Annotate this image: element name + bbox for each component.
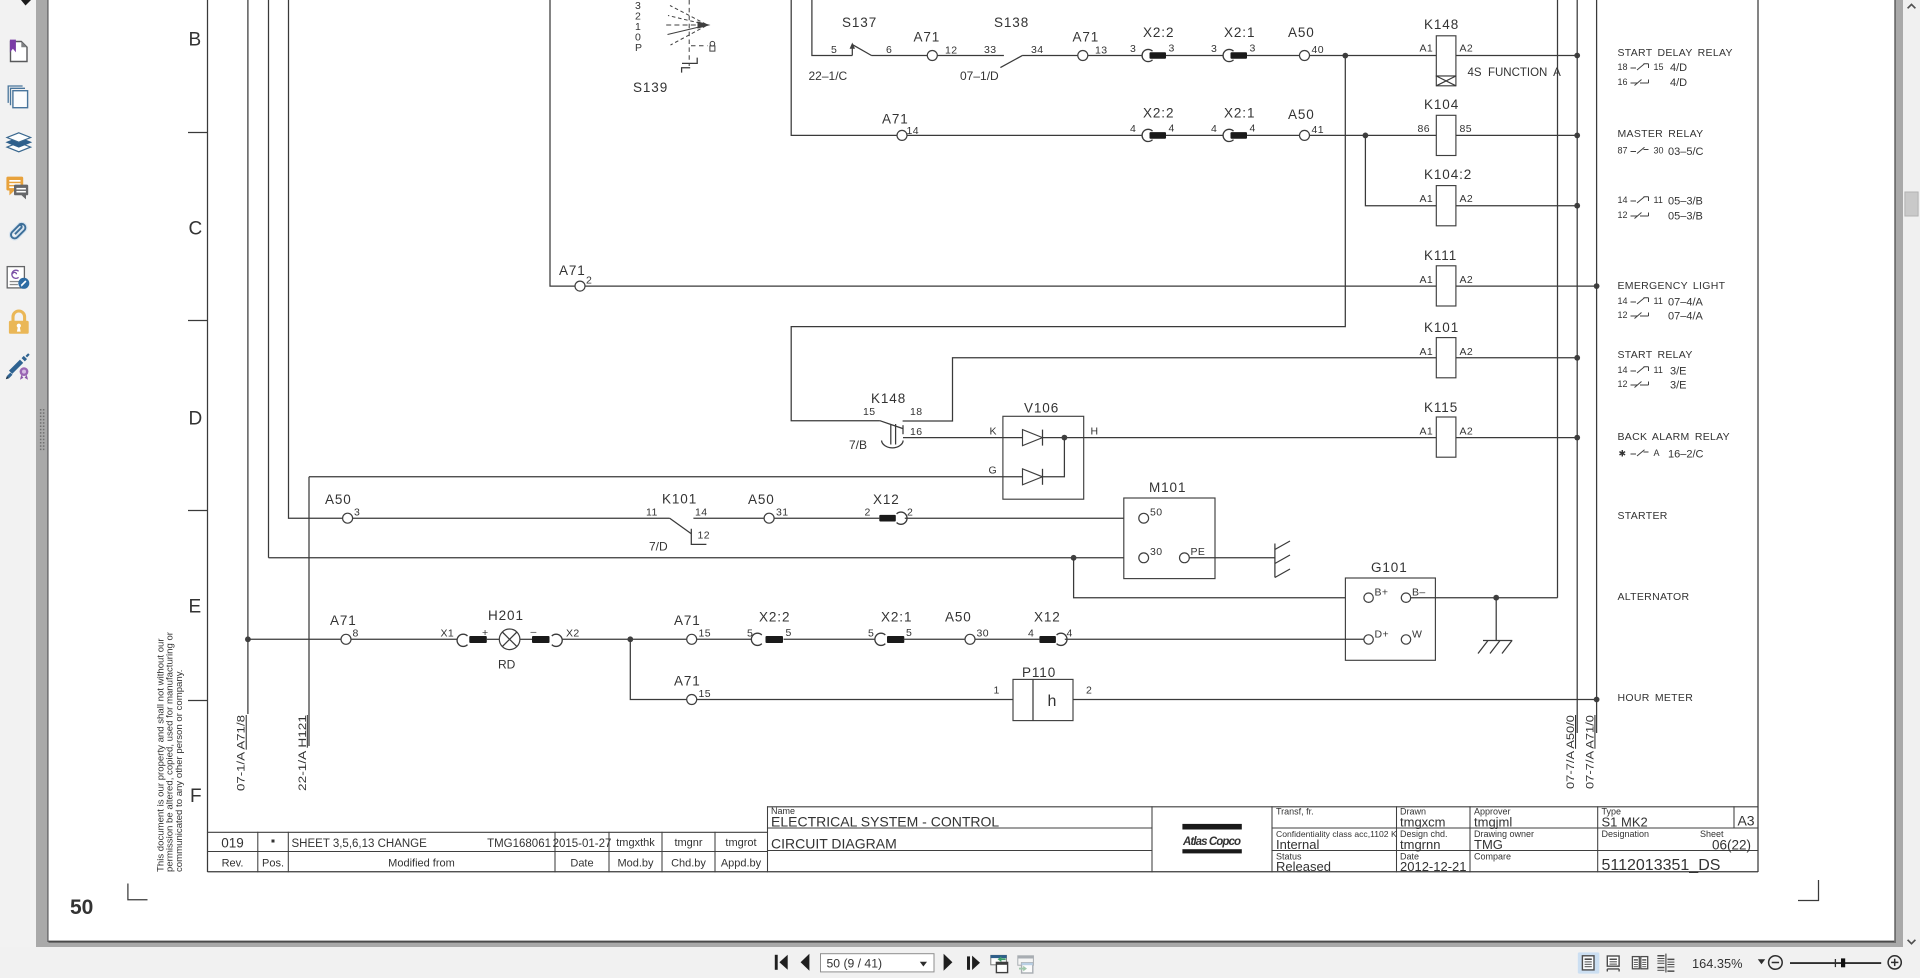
- svg-text:2: 2: [1086, 685, 1092, 697]
- wire X2:2 to X2:1 row B2: [1166, 134, 1223, 136]
- svg-text:BACK ALARM RELAY: BACK ALARM RELAY: [1618, 431, 1730, 443]
- wire K101:14 to A50:31: [693, 517, 764, 519]
- svg-text:RD: RD: [498, 658, 516, 672]
- row tick E/F: [188, 700, 208, 702]
- svg-text:07–1/D: 07–1/D: [960, 69, 999, 83]
- wire A50:40 to K148:A1: [1310, 55, 1437, 57]
- hour meter P110 box: [1013, 679, 1073, 720]
- svg-text:4/D: 4/D: [1670, 62, 1687, 74]
- svg-text:2012-12-21: 2012-12-21: [1400, 859, 1467, 874]
- wire X2:1 to A50:41: [1247, 134, 1300, 136]
- svg-text:Chd.by: Chd.by: [671, 858, 706, 870]
- svg-text:H201: H201: [488, 608, 524, 623]
- svg-text:A1: A1: [1420, 346, 1434, 358]
- svg-text:15: 15: [699, 688, 711, 700]
- svg-text:164.35%: 164.35%: [1692, 956, 1743, 971]
- svg-text:13: 13: [1095, 45, 1107, 57]
- svg-text:K101: K101: [662, 492, 697, 507]
- wire K111:A2 to bus3: [1456, 285, 1597, 287]
- wire: vertical from top at x=550 to C-row corner: [550, 0, 575, 286]
- S139 selector arrow: [698, 21, 711, 28]
- svg-text:07–4/A: 07–4/A: [1668, 311, 1704, 323]
- svg-text:16: 16: [1618, 77, 1628, 87]
- wire X2 to A71:15: [562, 638, 687, 640]
- svg-text:3: 3: [1211, 43, 1217, 55]
- svg-text:50 (9 / 41): 50 (9 / 41): [827, 957, 883, 971]
- wire: vertical at x=309 from V106-G corner down to label H121: [308, 477, 310, 746]
- row tick C/D: [188, 320, 208, 322]
- terminal circle A71:12: [927, 51, 937, 61]
- svg-text:A3: A3: [1737, 813, 1754, 829]
- svg-text:START DELAY RELAY: START DELAY RELAY: [1618, 47, 1733, 59]
- node: junction dot bus2 K101 row: [1574, 355, 1580, 361]
- svg-text:h: h: [1048, 693, 1057, 710]
- svg-text:communicated to any other pers: communicated to any other person or comp…: [174, 670, 185, 872]
- svg-text:B–: B–: [1412, 587, 1426, 599]
- wire A50:31 to X12:2: [774, 517, 879, 519]
- svg-text:12: 12: [945, 45, 957, 57]
- svg-text:4: 4: [1169, 123, 1175, 135]
- svg-text:A50: A50: [945, 610, 972, 625]
- svg-text:5: 5: [831, 44, 837, 56]
- svg-text:S139: S139: [633, 80, 668, 95]
- svg-text:2015-01-27: 2015-01-27: [553, 838, 612, 850]
- node: junction dot at (1073.6,557.8): [1071, 555, 1077, 561]
- relay coil K101: [1436, 338, 1456, 378]
- wire branch down to K104:2 coil: [1365, 135, 1436, 205]
- terminal circle M101:30: [1139, 553, 1149, 563]
- continuous layout button: [1607, 956, 1619, 966]
- wire: bus3 A71/0 from top to y=733: [1596, 0, 1598, 733]
- svg-text:5: 5: [906, 627, 912, 639]
- partial icon at top: [21, 0, 31, 6]
- wire A50:3 to K101:11: [353, 517, 670, 519]
- wire: vertical from top at x=811.9 to B1-row corner feeding S137: [812, 0, 852, 56]
- connector X2:1 socket symbol row E: [875, 633, 885, 645]
- svg-text:85: 85: [1460, 123, 1472, 135]
- svg-text:50: 50: [70, 896, 93, 919]
- svg-text:X2:1: X2:1: [881, 610, 912, 625]
- svg-text:5: 5: [786, 627, 792, 639]
- svg-text:50: 50: [1150, 507, 1162, 519]
- terminal circle A71:15 (hour row): [687, 695, 697, 705]
- digital signatures icon: [7, 267, 24, 288]
- svg-text:6: 6: [886, 44, 892, 56]
- sheet corner mark bottom-left: [128, 884, 148, 900]
- K104:2 contact cross-ref 14/11 05-3/B: [1631, 197, 1649, 203]
- K115 contact cross-ref * A 16-2/C: [1631, 450, 1649, 456]
- svg-text:SHEET 3,5,6,13 CHANGE: SHEET 3,5,6,13 CHANGE: [292, 838, 428, 850]
- S139 manual operator brackets: [682, 58, 697, 64]
- K148 contact cross-ref 16 4/D: [1631, 80, 1649, 86]
- svg-text:34: 34: [1031, 44, 1043, 56]
- svg-text:PE: PE: [1191, 546, 1206, 558]
- connector X1 socket symbol: [457, 634, 467, 646]
- Atlas Copco logo: [1182, 824, 1241, 830]
- wire ground drop from B- net: [1495, 598, 1497, 641]
- svg-text:A2: A2: [1460, 274, 1474, 286]
- wire: vertical from top at x=791.2 to B2-row corner feeding A71:14: [791, 0, 897, 135]
- zoom out button: [1769, 956, 1783, 970]
- svg-text:4: 4: [1130, 123, 1136, 135]
- starter motor M101 box: [1124, 498, 1215, 579]
- svg-text:12: 12: [1618, 379, 1628, 389]
- svg-text:41: 41: [1312, 124, 1324, 136]
- svg-text:14: 14: [1618, 195, 1628, 205]
- node: junction dot at (1496.2,597.7): [1493, 595, 1499, 601]
- svg-text:12: 12: [698, 530, 710, 542]
- svg-text:3: 3: [1169, 43, 1175, 55]
- comments icon: [6, 177, 23, 196]
- page number box: [821, 954, 935, 972]
- svg-text:S138: S138: [994, 15, 1029, 30]
- svg-text:30: 30: [1654, 146, 1664, 156]
- S139 interlock dashed link: [691, 45, 708, 47]
- svg-text:C: C: [189, 219, 203, 240]
- svg-text:11: 11: [646, 507, 658, 519]
- continuous facing layout button: [1665, 954, 1667, 973]
- wire X2:1 to A50:30: [904, 638, 966, 640]
- wire S137:6 to A71:12 to S138:33: [872, 55, 1004, 57]
- svg-text:3/E: 3/E: [1670, 366, 1687, 378]
- attachments (paperclip) icon: [9, 222, 27, 240]
- svg-text:1: 1: [994, 685, 1000, 697]
- wire: bus2 A50/0 from top to y=733: [1576, 0, 1578, 733]
- svg-text:A2: A2: [1460, 193, 1474, 205]
- svg-text:B+: B+: [1375, 587, 1389, 599]
- svg-text:A50: A50: [1288, 25, 1315, 40]
- svg-text:HOUR METER: HOUR METER: [1618, 692, 1694, 704]
- svg-text:K111: K111: [1424, 248, 1457, 263]
- K104 contact cross-ref 87/30 03-5/C: [1631, 147, 1649, 153]
- svg-text:M101: M101: [1149, 480, 1186, 495]
- wire V106-G input from x=309: [309, 476, 1023, 478]
- node: junction dot bus2 K104:2 row: [1574, 203, 1580, 209]
- svg-text:4/D: 4/D: [1670, 77, 1687, 89]
- svg-text:H: H: [1091, 426, 1099, 438]
- svg-text:22-1/A H121: 22-1/A H121: [297, 715, 309, 791]
- svg-text:START RELAY: START RELAY: [1618, 349, 1693, 361]
- svg-text:A71: A71: [882, 112, 909, 127]
- wire: vertical bus from top at x=288.5 turning right at y=518.2 (starter row feed): [289, 0, 343, 518]
- svg-text:K148: K148: [871, 391, 906, 406]
- svg-text:Released: Released: [1276, 859, 1331, 874]
- svg-text:D+: D+: [1375, 629, 1390, 641]
- wire A71:14 to X2:2 row B2: [907, 134, 1142, 136]
- svg-text:4: 4: [1211, 123, 1217, 135]
- wire: net from corner (791.2,326.6) right to 1345.3 and up to B1 supply dot: [791, 56, 1345, 421]
- K111 contact cross-ref 14/11 07-4/A: [1631, 298, 1649, 304]
- zoom in button: [1888, 956, 1901, 969]
- svg-text:TMG: TMG: [1474, 837, 1503, 852]
- svg-text:Pos.: Pos.: [262, 858, 284, 870]
- wire from x=268.5 to M101:30: [269, 557, 1139, 559]
- svg-text:G: G: [989, 465, 998, 477]
- S139 selector fan (dashed position lines): [665, 6, 707, 46]
- K148 delay (parachute) symbol: [890, 424, 892, 445]
- svg-text:K101: K101: [1424, 320, 1459, 335]
- K101 contact cross-ref 12 3/E: [1631, 382, 1649, 388]
- diode V106b: [1023, 469, 1043, 485]
- node: junction dot V106 internal: [1062, 435, 1068, 441]
- svg-text:Mod.by: Mod.by: [617, 858, 654, 870]
- terminal circle A50:31: [764, 513, 774, 523]
- relay coil K104:2: [1436, 186, 1456, 226]
- sign document icon: [11, 361, 22, 372]
- lamp H201 symbol: [499, 629, 520, 650]
- terminal circle A71:2: [575, 281, 585, 291]
- svg-text:11: 11: [1654, 195, 1663, 205]
- svg-text:3: 3: [1130, 43, 1136, 55]
- wire branch down to G101:B+: [1074, 558, 1364, 598]
- svg-text:11: 11: [1654, 296, 1663, 306]
- svg-text:X2:1: X2:1: [1224, 25, 1255, 40]
- svg-text:STARTER: STARTER: [1618, 510, 1668, 522]
- wire A50:41 to K104:86: [1310, 134, 1437, 136]
- svg-text:tmgxthk: tmgxthk: [616, 837, 655, 849]
- svg-text:5112013351_DS: 5112013351_DS: [1602, 857, 1721, 874]
- svg-text:Transf, fr.: Transf, fr.: [1276, 807, 1314, 817]
- pages icon: [8, 86, 22, 103]
- terminal circle G101:D+: [1364, 635, 1373, 644]
- S139 lock glyph: [710, 41, 715, 46]
- svg-text:4: 4: [1028, 628, 1034, 640]
- svg-text:A1: A1: [1420, 43, 1434, 55]
- svg-text:A71: A71: [914, 30, 941, 45]
- wire destination label A71/0 07-7/A (rotated): [1584, 715, 1596, 789]
- node: junction dot at (1345.3,55.6): [1342, 53, 1348, 59]
- node: junction dot E-row at (247.9,639.3): [245, 636, 251, 642]
- svg-text:X2:2: X2:2: [1143, 25, 1174, 40]
- wire drop from E row to hour meter row: [630, 639, 686, 699]
- disclaimer rotated text: [156, 631, 185, 872]
- terminal circle A71:8: [341, 634, 351, 644]
- terminal circle G101:W: [1401, 635, 1410, 644]
- contact K148 blade and terminals: [880, 421, 903, 429]
- next view button (disabled): [1018, 956, 1034, 965]
- drawing frame bottom border: [208, 871, 1759, 873]
- K148 timer function box with X: [1436, 76, 1456, 86]
- terminal circle M101:50: [1139, 513, 1149, 523]
- svg-text:A50: A50: [1288, 107, 1315, 122]
- svg-text:Modified from: Modified from: [388, 858, 455, 870]
- diode V106a: [1023, 430, 1043, 446]
- svg-text:ELECTRICAL SYSTEM - CONTROL: ELECTRICAL SYSTEM - CONTROL: [771, 814, 999, 830]
- svg-text:22–1/C: 22–1/C: [809, 69, 848, 83]
- svg-text:A: A: [1654, 448, 1660, 458]
- wire X12:4 to G101:D+: [1065, 638, 1364, 640]
- svg-text:A1: A1: [1420, 426, 1434, 438]
- wire destination label H121 22-1/A (rotated): [297, 715, 309, 791]
- wire K104:2 A2 to bus2: [1456, 205, 1577, 207]
- row tick B/C: [188, 132, 208, 134]
- svg-text:40: 40: [1312, 44, 1324, 56]
- svg-text:X2:1: X2:1: [1224, 106, 1255, 121]
- svg-text:18: 18: [1618, 62, 1628, 72]
- svg-text:A50: A50: [325, 492, 352, 507]
- title block outline: [768, 807, 1759, 872]
- wire A71:15 to X2:2 row E: [697, 638, 752, 640]
- terminal circle A50:3: [343, 513, 353, 523]
- wire V106a to output H: [1043, 437, 1093, 439]
- contact K101 NC terminal 12: [691, 529, 706, 545]
- relay coil K115: [1436, 417, 1456, 457]
- wire V106b to junction: [1043, 438, 1065, 477]
- svg-text:D: D: [189, 409, 203, 430]
- svg-text:12: 12: [1618, 310, 1628, 320]
- svg-text:A71: A71: [330, 613, 357, 628]
- svg-text:019: 019: [221, 836, 244, 851]
- terminal circle A50:30: [965, 634, 975, 644]
- svg-text:tmgjml: tmgjml: [1474, 814, 1512, 829]
- previous page button: [801, 954, 810, 971]
- svg-text:3/E: 3/E: [1670, 380, 1687, 392]
- svg-text:EMERGENCY LIGHT: EMERGENCY LIGHT: [1618, 280, 1726, 292]
- svg-text:16: 16: [910, 426, 922, 438]
- svg-text:Atlas Copco: Atlas Copco: [1182, 836, 1241, 848]
- wire X2:2 to X2:1 row B1: [1166, 55, 1223, 57]
- svg-text:06(22): 06(22): [1712, 838, 1751, 853]
- svg-text:K104: K104: [1424, 97, 1459, 112]
- svg-text:07-7/A A50/0: 07-7/A A50/0: [1565, 715, 1577, 789]
- svg-text:A50: A50: [748, 492, 775, 507]
- switch S138 blade (open): [1000, 55, 1022, 67]
- connector X2:1 socket symbol row B2: [1223, 129, 1233, 141]
- drawing frame right border: [1757, 0, 1759, 872]
- wire A71:15 to P110:1: [697, 699, 1013, 701]
- wire K148:A2 to bus2: [1456, 55, 1577, 57]
- connector X2:2 socket symbol row B2: [1142, 129, 1152, 141]
- svg-text:5: 5: [868, 628, 874, 640]
- layers icon: [7, 142, 31, 151]
- diode block V106 box: [1003, 416, 1084, 499]
- svg-text:14: 14: [695, 507, 707, 519]
- terminal circle M101:PE: [1180, 553, 1190, 563]
- wire A71:2 to K111:A1: [585, 285, 1436, 287]
- wire: vertical bus from top at x=268.5 turning right at y=557.8: [268, 0, 270, 558]
- wire M101:PE to chassis ground: [1189, 557, 1275, 559]
- revision table: [208, 832, 768, 872]
- svg-text:Internal: Internal: [1276, 837, 1319, 852]
- svg-text:tmgnr: tmgnr: [674, 837, 702, 849]
- sidebar drag handle dots: [40, 409, 45, 450]
- svg-text:2: 2: [865, 507, 871, 519]
- svg-text:87: 87: [1618, 146, 1628, 156]
- K101 contact cross-ref 14/11 3/E: [1631, 367, 1649, 373]
- connector X12 plug symbol row E: [1039, 636, 1056, 643]
- svg-text:A1: A1: [1420, 274, 1434, 286]
- svg-text:Compare: Compare: [1474, 852, 1511, 862]
- single page layout button (selected): [1578, 952, 1600, 973]
- S139 shaft dashed vertical: [688, 0, 690, 66]
- svg-text:F: F: [190, 786, 202, 807]
- svg-text:2: 2: [907, 507, 913, 519]
- svg-text:S1 MK2: S1 MK2: [1602, 814, 1648, 829]
- svg-text:ALTERNATOR: ALTERNATOR: [1618, 591, 1690, 603]
- svg-text:X2: X2: [566, 628, 580, 640]
- svg-text:A2: A2: [1460, 346, 1474, 358]
- relay coil K104: [1436, 115, 1456, 155]
- svg-text:TMG168061: TMG168061: [487, 838, 551, 850]
- terminal circle A50:40: [1300, 51, 1310, 61]
- K104:2 contact cross-ref 12 05-3/B: [1631, 213, 1649, 219]
- svg-text:07-1/A A71/8: 07-1/A A71/8: [236, 715, 248, 791]
- svg-text:E: E: [189, 597, 202, 618]
- connector X2:1 socket symbol row B1: [1223, 49, 1233, 61]
- wire V106:H to K115:A1: [1092, 437, 1436, 439]
- svg-text:S137: S137: [842, 15, 877, 30]
- connector X2:2 socket symbol row B1: [1142, 49, 1152, 61]
- svg-text:7/D: 7/D: [649, 540, 668, 554]
- node: junction dot bus3 hour row: [1594, 697, 1600, 703]
- svg-text:33: 33: [984, 44, 996, 56]
- svg-text:tmgrot: tmgrot: [725, 837, 756, 849]
- svg-text:3: 3: [354, 507, 360, 519]
- svg-text:07-7/A A71/0: 07-7/A A71/0: [1584, 715, 1596, 789]
- wire P110:2 to bus3: [1073, 699, 1597, 701]
- svg-text:3: 3: [1250, 43, 1256, 55]
- chassis ground at M101: [1274, 544, 1276, 578]
- svg-text:4S FUNCTION A: 4S FUNCTION A: [1468, 67, 1562, 79]
- svg-text:31: 31: [776, 507, 788, 519]
- svg-text:15: 15: [699, 628, 711, 640]
- wire K104:85 to bus2: [1456, 134, 1577, 136]
- svg-text:Date: Date: [570, 858, 593, 870]
- wire G101:B- to bus1 corner: [1411, 597, 1558, 599]
- bookmarks icon: [11, 42, 28, 62]
- chassis ground at G101: [1483, 640, 1512, 642]
- svg-text:A71: A71: [1073, 30, 1100, 45]
- svg-text:16–2/C: 16–2/C: [1668, 449, 1704, 461]
- svg-text:11: 11: [1654, 365, 1663, 375]
- facing layout button: [1632, 957, 1639, 969]
- svg-text:K148: K148: [1424, 17, 1459, 32]
- last page button: [967, 956, 970, 969]
- svg-text:15: 15: [1654, 62, 1664, 72]
- relay coil K148: [1436, 36, 1456, 76]
- svg-text:X2:2: X2:2: [759, 610, 790, 625]
- svg-text:A71: A71: [559, 263, 586, 278]
- svg-text:05–3/B: 05–3/B: [1668, 196, 1703, 208]
- switch S137 contact (pivot tick + arrow + blade): [851, 47, 853, 56]
- svg-text:2: 2: [586, 275, 592, 287]
- svg-text:A71: A71: [674, 613, 701, 628]
- svg-text:K: K: [990, 426, 997, 438]
- wire K115:A2 to bus2: [1456, 437, 1577, 439]
- sheet corner mark bottom-right: [1798, 880, 1819, 901]
- svg-text:P110: P110: [1022, 665, 1056, 680]
- svg-text:tmgrnn: tmgrnn: [1400, 837, 1440, 852]
- svg-text:Designation: Designation: [1602, 829, 1650, 839]
- row tick D/E: [188, 510, 208, 512]
- wire row E from junction at x=247.9: [248, 638, 458, 640]
- connector X12 plug symbol row D: [879, 515, 896, 522]
- svg-text:12: 12: [1618, 210, 1628, 220]
- svg-text:X1: X1: [441, 628, 455, 640]
- node: junction dot bus2 row B2: [1574, 133, 1580, 139]
- svg-text:Rev.: Rev.: [222, 858, 244, 870]
- svg-text:V106: V106: [1024, 401, 1059, 416]
- node: junction dot bus3 row C: [1594, 283, 1600, 289]
- wire K148:18 riser to K101:A1: [903, 358, 1437, 421]
- wire K101:A2 to bus2: [1456, 357, 1577, 359]
- previous view button: [991, 955, 1007, 964]
- svg-text:14: 14: [1618, 365, 1628, 375]
- terminal circle A71:15: [687, 634, 697, 644]
- terminal circle G101:B-: [1401, 593, 1410, 602]
- svg-text:A71: A71: [674, 674, 701, 689]
- terminal circle G101:B+: [1364, 593, 1373, 602]
